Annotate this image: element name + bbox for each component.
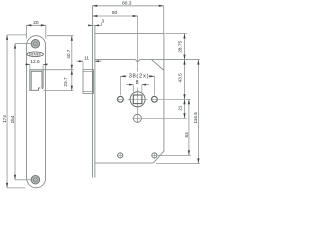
svg-text:40.7: 40.7 <box>66 49 71 59</box>
svg-text:63: 63 <box>184 132 189 138</box>
svg-text:80.3: 80.3 <box>122 1 132 7</box>
svg-text:21: 21 <box>178 105 183 111</box>
svg-text:174: 174 <box>2 115 7 123</box>
svg-text:8: 8 <box>136 80 139 86</box>
svg-text:38(2x): 38(2x) <box>129 74 150 80</box>
svg-text:43.5: 43.5 <box>178 73 183 83</box>
svg-text:11: 11 <box>84 56 89 62</box>
svg-text:116.5: 116.5 <box>193 112 198 124</box>
svg-text:20: 20 <box>33 20 39 26</box>
svg-text:NEMEF: NEMEF <box>29 53 41 57</box>
svg-text:23.7: 23.7 <box>63 77 68 87</box>
svg-text:3: 3 <box>101 19 104 25</box>
svg-text:28.75: 28.75 <box>177 41 182 53</box>
svg-text:154: 154 <box>10 115 15 123</box>
svg-text:12.6: 12.6 <box>30 59 40 65</box>
svg-text:50: 50 <box>112 10 118 16</box>
